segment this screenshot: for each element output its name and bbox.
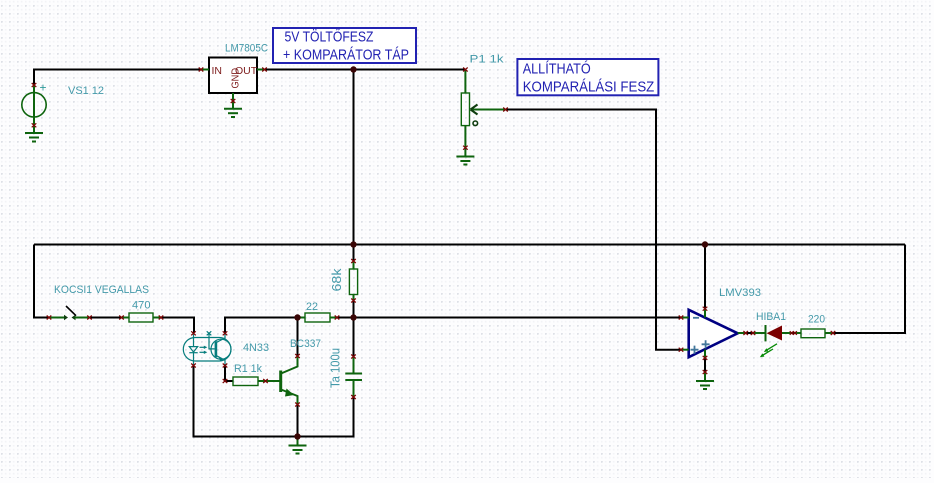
ground below regulator	[224, 101, 242, 117]
pin stub minus input	[681, 317, 689, 319]
potentiometer wiper arrow	[471, 105, 478, 115]
wire opto emitter to R1	[225, 366, 233, 382]
svg-text:5V TÖLTŐFESZ: 5V TÖLTŐFESZ	[285, 28, 374, 46]
ground main rail	[289, 437, 307, 454]
svg-text:+: +	[40, 81, 47, 95]
svg-text:KOMPARÁLÁSI FESZ: KOMPARÁLÁSI FESZ	[523, 79, 655, 96]
wire 220 to right rail	[833, 245, 905, 334]
junction node C	[350, 314, 356, 320]
svg-text:ALLÍTHATÓ: ALLÍTHATÓ	[523, 61, 591, 78]
wire comparator ground pin	[704, 358, 706, 372]
wire opto collector to node B	[225, 318, 298, 334]
wire 68k top	[353, 245, 355, 262]
wire opto cathode to ground rail	[194, 366, 354, 437]
svg-text:IN: IN	[212, 65, 223, 77]
pin stub output	[738, 332, 746, 334]
resistor 470	[122, 313, 162, 322]
pin mark opto base unconnected	[207, 331, 212, 335]
wire LED to 220	[786, 332, 801, 334]
wire comparator output to LED	[746, 332, 753, 334]
svg-text:220: 220	[808, 314, 825, 326]
resistor R1 1k	[233, 377, 266, 386]
potentiometer o mark	[473, 121, 478, 126]
svg-text:22: 22	[306, 301, 318, 313]
wire +5V vertical down	[353, 70, 355, 245]
voltage source VS1	[22, 85, 46, 125]
svg-text:P1 1k: P1 1k	[470, 54, 505, 66]
note box 5V TOLTOFESZ	[273, 28, 416, 64]
regulator U1 LM7805C	[209, 58, 257, 94]
svg-text:KOCSI1 VEGALLAS: KOCSI1 VEGALLAS	[54, 284, 149, 296]
svg-text:BC337: BC337	[290, 338, 321, 350]
wire switch to 470	[90, 317, 122, 319]
resistor 68k	[349, 261, 357, 301]
svg-text:GND: GND	[230, 68, 242, 89]
svg-text:HIBA1: HIBA1	[756, 311, 786, 323]
wire 470 to opto anode	[161, 318, 194, 334]
capacitor Ta 100u	[345, 357, 362, 398]
LED HIBA1	[753, 332, 766, 334]
resistor 22	[298, 313, 338, 322]
optocoupler U2 4N33	[183, 333, 231, 365]
wire 22 to comparator minus input	[337, 317, 681, 319]
svg-text:4N33: 4N33	[243, 342, 269, 354]
pin stub GND	[232, 93, 234, 101]
transistor Q1 BC337	[266, 380, 280, 382]
svg-text:VS1 12: VS1 12	[68, 85, 104, 97]
wire +5V rail	[34, 244, 905, 246]
switch KOCSI1 VEGALLAS	[49, 317, 64, 319]
ground below P1	[456, 148, 474, 165]
pin marks	[32, 68, 836, 407]
ground below VS1	[25, 125, 43, 141]
LED emission arrows	[762, 344, 778, 356]
wire rail left down to switch	[34, 245, 49, 318]
resistor 220	[795, 329, 833, 338]
wire node B down to BC337 collector	[297, 318, 299, 357]
wire comparator power pin	[704, 245, 706, 309]
note box ALLITHATO	[517, 59, 658, 96]
pin stub ground	[704, 350, 706, 358]
svg-text:Ta 100u: Ta 100u	[329, 348, 343, 388]
wire regulator OUT to P1 top	[265, 69, 466, 71]
svg-text:470: 470	[132, 300, 151, 312]
junction node rail comparator power	[702, 241, 708, 247]
junction node ground rail	[294, 433, 300, 439]
wire node C to capacitor top	[353, 318, 355, 357]
svg-text:R1 1k: R1 1k	[234, 363, 262, 375]
junction node rail left	[350, 241, 356, 247]
potentiometer P1 1k	[461, 70, 505, 148]
pin stub OUT	[257, 69, 265, 71]
wire 68k bottom to node C	[353, 301, 355, 318]
junction node B	[294, 314, 300, 320]
wire VS1 top to regulator IN	[34, 70, 201, 86]
ground below op-amp	[696, 372, 714, 389]
svg-text:LM7805C: LM7805C	[225, 43, 268, 55]
svg-text:LMV393: LMV393	[719, 287, 761, 299]
wire P1 wiper to comparator plus input	[506, 110, 682, 350]
pin stub plus input	[681, 349, 689, 351]
svg-text:+ KOMPARÁTOR TÁP: + KOMPARÁTOR TÁP	[283, 47, 409, 64]
pin stub power	[704, 309, 706, 318]
op-amp U3 LMV393	[689, 310, 738, 357]
pin stub IN	[201, 69, 209, 71]
wire BC337 emitter to ground rail	[297, 405, 299, 437]
svg-text:68k: 68k	[330, 268, 344, 292]
junction node +5V top	[350, 66, 356, 72]
